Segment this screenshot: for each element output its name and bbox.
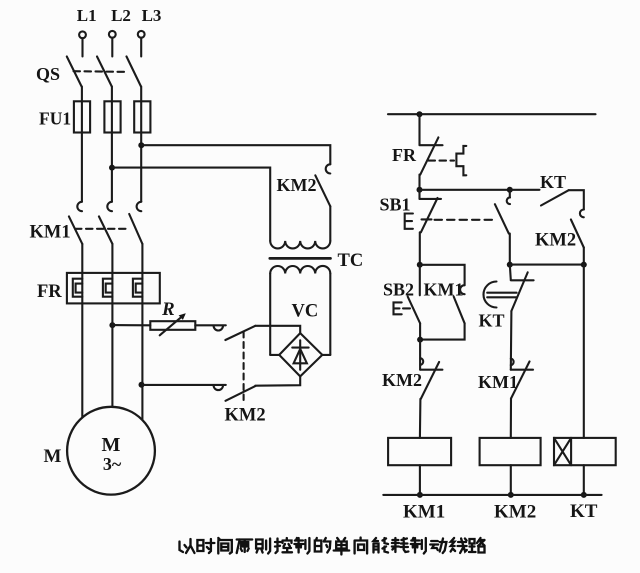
title 以时间原则控制的单向能耗制动线路 (hand-drawn strokes)	[180, 538, 485, 555]
node C	[417, 262, 423, 268]
node A	[417, 187, 423, 193]
coil KM1	[388, 438, 451, 465]
char 以	[180, 539, 195, 553]
char 则	[256, 539, 270, 554]
rectifier VC diode	[292, 340, 308, 370]
svg-text:FR: FR	[37, 282, 62, 302]
pushbutton SB1 NO branch wire	[509, 190, 511, 198]
wire coil KM1 to bus	[419, 465, 421, 495]
contactor KM1 main link dashed	[75, 228, 128, 230]
wire SB1 blade bottom	[419, 232, 421, 264]
pushbutton SB1 NO fixed arc	[507, 198, 510, 205]
svg-text:QS: QS	[36, 64, 60, 84]
contactor KM2 transformer-switch fixed arc	[326, 164, 331, 173]
svg-text:KM2: KM2	[535, 231, 576, 251]
wire L3 stub	[140, 38, 142, 57]
thermal contact FR T-bar	[420, 144, 443, 146]
wire node B to KT contact	[510, 189, 540, 191]
wire tap phase3 horizontal	[141, 145, 330, 164]
wire resistor to contact	[195, 324, 226, 326]
terminal L3	[138, 31, 145, 38]
coil KT	[554, 438, 616, 465]
control bus bottom	[383, 494, 601, 496]
terminal L2	[109, 31, 116, 38]
wire phase1 FR to motor	[81, 273, 83, 417]
wire blade to bridge top	[255, 326, 300, 333]
contact KM1 NC T-bar	[511, 369, 533, 371]
char 线	[451, 538, 467, 553]
char 制	[294, 538, 309, 554]
thermal relay FR box	[67, 273, 160, 304]
switch QS pole1 blade	[67, 57, 82, 87]
char 向	[355, 538, 368, 554]
node coil KM1 bus	[417, 492, 423, 498]
char 路	[469, 538, 485, 553]
wire KM1 latch bottom	[420, 323, 465, 339]
char 制 (second)	[411, 538, 426, 554]
relay contact KT delayed blade	[511, 272, 527, 311]
fuse FU1 pole3	[134, 101, 150, 132]
contactor KM1 main pole2 arc	[107, 202, 112, 211]
svg-text:L1: L1	[77, 6, 97, 25]
switch QS pole3 blade	[127, 57, 142, 87]
pushbutton SB2 blade	[408, 297, 420, 324]
terminal L1	[79, 31, 86, 38]
wire node D to node E	[510, 264, 584, 266]
svg-text:L3: L3	[142, 6, 162, 25]
node tap phase3	[138, 142, 144, 148]
relay contact KT upper blade	[541, 190, 569, 205]
contactor KM1 main pole3 arc	[137, 202, 142, 211]
wire phase2 fuse	[111, 87, 113, 202]
char 能	[374, 538, 389, 553]
svg-text:3~: 3~	[103, 454, 122, 474]
svg-text:KM2: KM2	[277, 175, 317, 195]
thermal relay FR element1	[73, 279, 83, 297]
contactor KM1 main pole1 blade	[69, 216, 82, 244]
coil KT X-box	[554, 438, 571, 465]
wire phase2 KM1 to FR	[111, 244, 113, 273]
wire L1 stub	[81, 38, 83, 56]
wire phase3 FR to motor	[141, 273, 143, 420]
svg-text:SB1: SB1	[380, 195, 411, 215]
contactor KM1 main pole1 arc	[77, 202, 82, 211]
char 耗	[392, 538, 409, 552]
wire phase3 KM1 to FR	[141, 244, 143, 273]
thermal relay FR element2	[103, 279, 113, 297]
wire blade to bridge bottom	[255, 376, 300, 385]
node coil KT bus	[581, 492, 587, 498]
char 原	[237, 540, 253, 554]
relay contact KT delayed wire	[510, 265, 511, 280]
contact KM2 NC fixed arc	[420, 358, 423, 365]
wire node C to SB2	[419, 265, 421, 296]
thermal relay FR element3	[133, 279, 143, 297]
wire SB1 to node C	[418, 190, 420, 199]
wire phase1 KM1 to FR	[81, 244, 83, 273]
thermal contact FR blade	[420, 137, 438, 174]
wire phase3 fuse	[140, 87, 142, 202]
contactor KM2 brake contact lower blade	[226, 386, 256, 401]
wire TC secondary right	[329, 274, 331, 355]
svg-text:SB2: SB2	[383, 280, 414, 300]
wire bridge right link	[322, 354, 330, 356]
wire tap phase2 horizontal	[112, 168, 270, 241]
fuse FU1 pole2	[104, 101, 120, 132]
node F	[417, 337, 423, 343]
svg-text:TC: TC	[338, 251, 364, 271]
rectifier VC bridge diamond	[279, 333, 322, 376]
contact KM1 latch blade	[454, 297, 465, 324]
char 的	[315, 538, 331, 553]
svg-text:KM1: KM1	[478, 372, 518, 392]
wire node A to node B	[420, 189, 510, 191]
contact KM1 NC fixed arc	[511, 359, 514, 366]
contact KM2 NC T-bar	[420, 369, 442, 371]
contactor KM2 brake contact upper fixed arc	[214, 326, 223, 331]
node tap phase3 lower	[139, 382, 145, 388]
transformer TC secondary coil	[270, 266, 330, 274]
pushbutton SB1 actuator	[405, 214, 413, 229]
pushbutton SB1 pusher tick	[422, 218, 432, 220]
svg-text:KM1: KM1	[403, 502, 445, 523]
wire SB1 NO to node D	[509, 234, 511, 265]
pushbutton SB1 dashed link	[435, 219, 498, 221]
wire bridge left link	[270, 354, 279, 356]
wire node E to coil KT	[583, 265, 585, 438]
contactor KM2 transformer-switch blade	[315, 175, 330, 206]
contactor KM1 main pole3 blade	[129, 214, 142, 244]
switch QS link dashed	[74, 70, 129, 73]
node B	[507, 187, 513, 193]
svg-text:L2: L2	[111, 6, 131, 25]
wire phase3 to lower contact	[142, 384, 226, 386]
resistor R arrow	[160, 313, 186, 335]
motor M circle	[67, 407, 155, 495]
wire bus to FR contact	[418, 114, 420, 145]
wire coil KM2 to bus	[510, 465, 512, 495]
transformer TC core	[270, 257, 331, 260]
fuse FU1 pole1	[74, 101, 90, 132]
node D	[507, 262, 513, 268]
wire phase1 fuse	[81, 87, 83, 202]
thermal contact FR dashed link	[429, 160, 455, 162]
char 时	[197, 539, 214, 553]
svg-text:KM2: KM2	[225, 406, 266, 426]
svg-text:KT: KT	[540, 172, 566, 192]
node coil KM2 bus	[508, 492, 514, 498]
contactor contact KM2 aux blade	[571, 220, 584, 248]
contactor KM2 brake contact upper blade	[225, 326, 255, 340]
svg-text:M: M	[102, 434, 121, 456]
svg-text:R: R	[161, 299, 175, 320]
char 动	[430, 539, 446, 554]
svg-text:KM1: KM1	[424, 280, 464, 300]
svg-text:KT: KT	[479, 311, 505, 331]
svg-text:VC: VC	[292, 302, 319, 322]
contactor KM2 brake link dashed	[243, 332, 245, 401]
char 间	[218, 538, 232, 554]
wire KT delayed to KM1 NC	[510, 311, 513, 370]
pushbutton SB1 NO blade	[495, 204, 509, 233]
svg-text:KT: KT	[570, 501, 598, 522]
wire coil KT to bus	[583, 465, 585, 495]
pushbutton SB1 T-bar	[420, 198, 442, 200]
contact KM1 NC blade	[511, 362, 530, 399]
wire phase2 to resistor	[112, 324, 150, 326]
wire KM2 NC to coil KM1	[419, 399, 422, 438]
contactor KM1 main pole2 blade	[99, 216, 113, 244]
wire KM2 aux to node D	[583, 248, 585, 265]
wire KM1 NC to coil KM2	[510, 399, 512, 438]
node tap phase2 lower	[109, 322, 115, 328]
pushbutton SB2 actuator	[394, 302, 402, 314]
wire node F to KM2 NC	[419, 340, 421, 370]
control bus top	[388, 113, 596, 115]
transformer TC primary coil	[270, 241, 330, 249]
contactor KM2 brake contact lower fixed arc	[214, 385, 223, 390]
switch QS pole2 blade	[97, 57, 112, 87]
contact KM1 latch fixed arc	[460, 285, 465, 294]
resistor R body	[150, 321, 195, 330]
wire SB2 bottom to node F	[419, 323, 421, 339]
wire FR contact to node	[418, 175, 420, 190]
contact KM2 NC blade	[421, 362, 439, 399]
wire KM2 to TC primary	[329, 206, 331, 241]
wire node C to KM1 latch corner	[420, 265, 465, 285]
svg-text:FU1: FU1	[39, 109, 71, 129]
svg-text:KM1: KM1	[30, 223, 71, 243]
contactor contact KM2 aux fixed arc	[580, 210, 584, 218]
thermal contact FR actuator bracket	[456, 146, 466, 175]
wire phase2 FR to motor	[111, 273, 113, 407]
relay contact KT delay arc	[484, 282, 497, 308]
char 单	[334, 538, 350, 555]
svg-text:FR: FR	[392, 145, 417, 165]
relay contact KT delayed T-bar	[511, 279, 534, 281]
pushbutton SB2 pusher tick	[403, 307, 410, 309]
char 控	[275, 538, 292, 553]
wire TC secondary left	[269, 274, 271, 355]
node E	[581, 262, 587, 268]
svg-text:M: M	[44, 446, 62, 467]
svg-text:KM2: KM2	[494, 502, 536, 523]
svg-text:KM2: KM2	[382, 370, 422, 390]
relay contact KT delay bars	[487, 293, 516, 298]
wire KT contact corner	[569, 190, 584, 209]
pushbutton SB1 blade	[421, 198, 438, 232]
node bus junction	[417, 111, 423, 117]
node tap phase2	[109, 165, 115, 171]
coil KM2	[480, 438, 541, 465]
wire L2 stub	[111, 38, 113, 57]
